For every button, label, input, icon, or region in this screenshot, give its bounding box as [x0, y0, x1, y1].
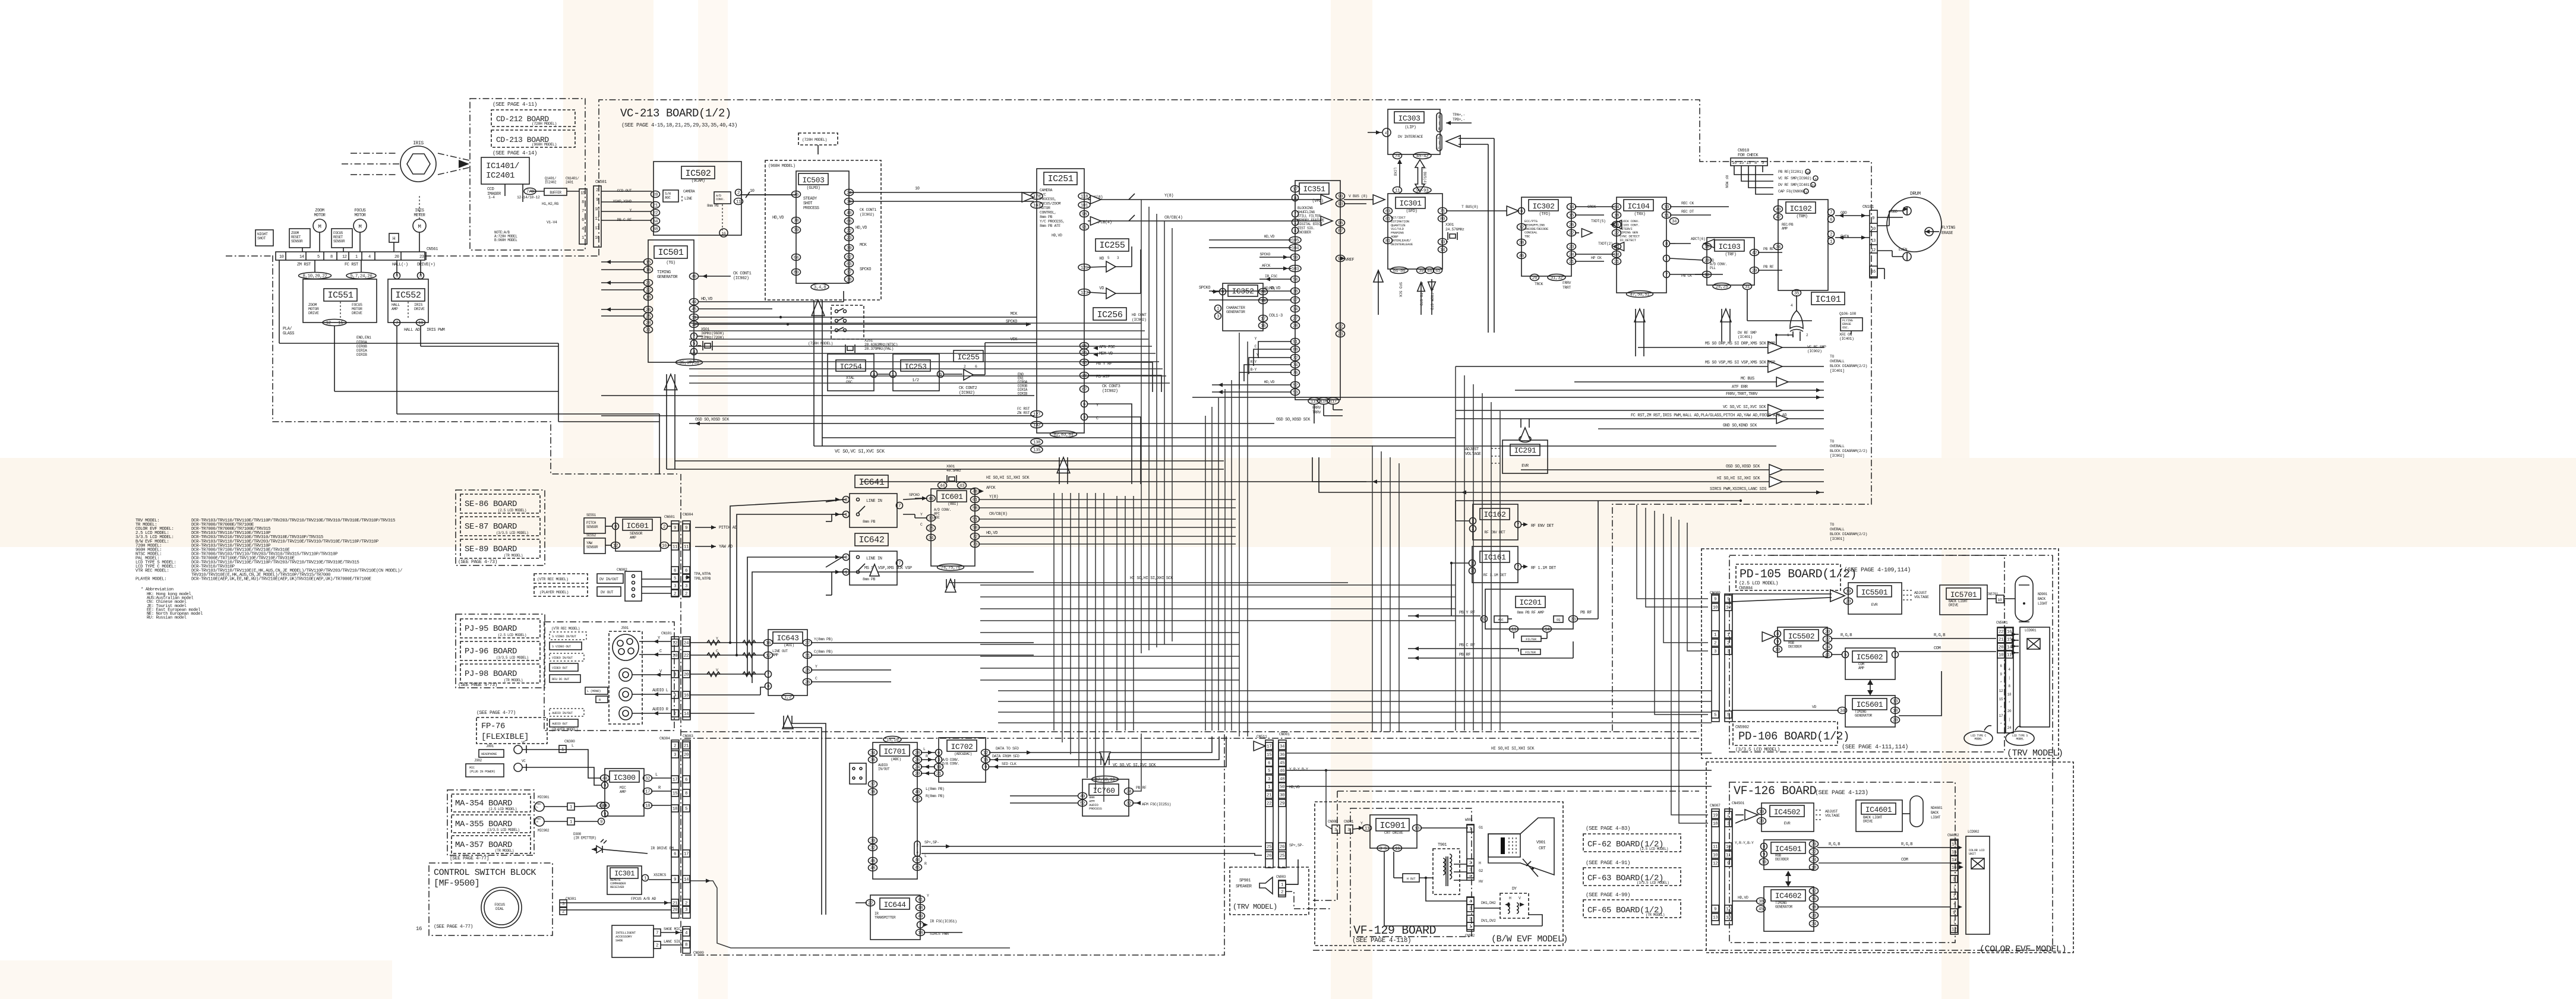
svg-text:(PLUG IN POWER): (PLUG IN POWER): [469, 770, 495, 774]
svg-text:SE-87 BOARD: SE-87 BOARD: [465, 522, 517, 532]
svg-text:R,G,B: R,G,B: [1841, 633, 1852, 638]
svg-text:7: 7: [919, 924, 921, 928]
svg-text:26: 26: [1569, 223, 1574, 228]
svg-text:FRRV: FRRV: [1562, 281, 1571, 285]
svg-text:PLAYER MODEL:: PLAYER MODEL:: [135, 577, 166, 582]
720H model box top: [798, 133, 838, 145]
svg-text:27: 27: [1293, 317, 1298, 322]
night shot box: [255, 230, 273, 246]
svg-text:MOTOR: MOTOR: [354, 213, 366, 218]
svg-text:87: 87: [1338, 229, 1343, 234]
svg-text:SHOE MIC L: SHOE MIC L: [664, 927, 685, 931]
wire mesh vertical bundle B: [1053, 493, 1055, 731]
svg-text:UNIT: UNIT: [1969, 852, 1977, 856]
svg-text:*: *: [1953, 903, 1955, 907]
svg-text:DRIVE: DRIVE: [1949, 603, 1959, 608]
svg-text:IC251: IC251: [1047, 174, 1073, 184]
svg-text:(TR MODEL): (TR MODEL): [504, 554, 523, 558]
svg-text:OVERALL: OVERALL: [1830, 359, 1845, 363]
svg-text:[IC401]: [IC401]: [1830, 369, 1845, 373]
svg-text:AFN FSC: AFN FSC: [1099, 345, 1115, 350]
svg-text:Y: Y: [716, 637, 718, 641]
svg-text:CAMERA: CAMERA: [683, 189, 695, 194]
svg-text:V901: V901: [1536, 840, 1545, 845]
svg-text:8: 8: [1776, 633, 1779, 637]
svg-text:IC2402: IC2402: [545, 181, 557, 185]
svg-text:V: V: [716, 668, 718, 672]
svg-text:20: 20: [915, 772, 920, 777]
svg-text:29: 29: [1752, 269, 1757, 274]
svg-text:IC301: IC301: [1399, 199, 1422, 208]
svg-text:REC DT: REC DT: [1681, 210, 1694, 214]
wire mesh horizontals lower2: [998, 690, 1712, 691]
svg-text:CN904: CN904: [683, 513, 693, 517]
svg-text:[IC902]: [IC902]: [1830, 454, 1845, 458]
svg-text:L BUS(4): L BUS(4): [1423, 167, 1427, 185]
svg-text:IC503: IC503: [802, 176, 824, 185]
svg-text:*: *: [2000, 722, 2002, 726]
svg-text:C: C: [920, 523, 923, 527]
svg-text:(IC401): (IC401): [1839, 337, 1854, 341]
IC301: [1388, 194, 1442, 269]
zoom motor: [313, 219, 326, 232]
svg-text:13: 13: [1704, 273, 1710, 278]
svg-text:24: 24: [1811, 858, 1817, 863]
IC301 remote receiver: [607, 866, 642, 894]
svg-text:SPCKO: SPCKO: [1199, 286, 1210, 290]
svg-text:PD-106 BOARD(1/2): PD-106 BOARD(1/2): [1738, 730, 1849, 743]
svg-text:12: 12: [1811, 890, 1816, 894]
svg-text:FC RST: FC RST: [345, 263, 358, 267]
svg-text:7: 7: [1517, 565, 1519, 570]
svg-text:2: 2: [685, 592, 687, 597]
svg-text:11: 11: [1713, 845, 1718, 850]
svg-text:17: 17: [1293, 188, 1298, 192]
svg-text:28: 28: [1293, 324, 1298, 329]
svg-text:TXDT(2): TXDT(2): [1598, 242, 1613, 246]
svg-text:(TFD): (TFD): [1539, 212, 1550, 217]
svg-text:OVERALL: OVERALL: [1830, 444, 1845, 448]
svg-text:21: 21: [1569, 260, 1574, 265]
iris lens symbol: [400, 146, 436, 182]
svg-text:ADJUST: ADJUST: [1825, 810, 1838, 814]
svg-text:R,G,B: R,G,B: [1829, 842, 1840, 847]
svg-text:|: |: [1438, 121, 1439, 125]
svg-text:TRCK: TRCK: [1535, 282, 1543, 286]
svg-text:Y(8): Y(8): [989, 495, 998, 499]
svg-text:22: 22: [1811, 851, 1816, 855]
svg-text:HD,VD: HD,VD: [1738, 896, 1748, 900]
crystal X501: [705, 343, 711, 348]
svg-text:VREF: VREF: [1345, 258, 1354, 263]
svg-text:11: 11: [1395, 189, 1400, 194]
svg-text:23: 23: [419, 255, 424, 260]
svg-text:IRIS: IRIS: [413, 141, 424, 146]
svg-text:51: 51: [973, 518, 978, 523]
svg-text:IC4501: IC4501: [1775, 845, 1802, 853]
svg-text:8: 8: [674, 673, 676, 678]
extended IC601 outputs: [978, 499, 1236, 500]
bus dots: [779, 316, 782, 318]
svg-text:S VIDEO OUT: S VIDEO OUT: [552, 644, 572, 649]
svg-text:7: 7: [656, 931, 658, 936]
svg-text:ENCODER: ENCODER: [1298, 230, 1311, 235]
svg-text:HP CK: HP CK: [1591, 256, 1602, 260]
svg-text:IC5602: IC5602: [1857, 653, 1883, 662]
svg-text:STEADY: STEADY: [803, 197, 817, 201]
svg-text:IC351: IC351: [1303, 185, 1325, 194]
scan tint vertical band 4: [1942, 0, 1969, 999]
svg-text:26: 26: [1532, 276, 1538, 281]
svg-text:RU: Russian model: RU: Russian model: [147, 616, 187, 621]
svg-text:34: 34: [870, 751, 876, 756]
IC643: [768, 630, 807, 695]
svg-text:(IR EMITTER): (IR EMITTER): [573, 836, 596, 840]
wire mesh vertical bundle A: [1141, 200, 1142, 653]
svg-text:46: 46: [929, 497, 934, 502]
svg-text:PLL: PLL: [1710, 266, 1716, 270]
wire mesh vertical bundle D: [1455, 366, 1456, 731]
CCD connector strips: [579, 189, 587, 244]
svg-text:IC4602: IC4602: [1775, 891, 1801, 900]
svg-text:2: 2: [674, 712, 676, 717]
svg-text:MS SO DRP,MS SI DRP,XMS SCK DR: MS SO DRP,MS SI DRP,XMS SCK DRP: [1705, 342, 1775, 346]
svg-text:Y,R-Y,B-Y: Y,R-Y,B-Y: [1735, 841, 1754, 845]
svg-text:TBC: TBC: [1524, 235, 1530, 239]
svg-text:LCD902: LCD902: [1968, 830, 1980, 834]
IC551: [303, 279, 377, 323]
svg-text:26: 26: [1267, 854, 1272, 859]
svg-text:14: 14: [1440, 248, 1445, 253]
svg-text:(SEE PAGE 4-109,114): (SEE PAGE 4-109,114): [1844, 567, 1911, 574]
svg-text:12: 12: [613, 544, 618, 549]
svg-text:TO: TO: [1830, 440, 1835, 444]
svg-text:12: 12: [673, 641, 677, 646]
svg-text:SE552: SE552: [586, 533, 596, 538]
svg-text:11: 11: [1365, 827, 1370, 832]
svg-text:10: 10: [750, 189, 755, 194]
wire mesh vertical bundle B2: [1116, 496, 1117, 731]
svg-text:25: 25: [1280, 854, 1285, 859]
svg-text:22: 22: [653, 211, 658, 216]
svg-text:(SEE PAGE 4-83): (SEE PAGE 4-83): [1586, 826, 1630, 832]
svg-text:22: 22: [868, 902, 873, 906]
svg-text:ERASE: ERASE: [1942, 231, 1953, 236]
svg-text:DIROB: DIROB: [356, 344, 367, 349]
svg-text:XSIRCS: XSIRCS: [654, 873, 667, 877]
svg-text:TRRV: TRRV: [1312, 410, 1321, 415]
svg-text:27: 27: [805, 641, 810, 646]
svg-text:CN4501: CN4501: [1732, 801, 1745, 805]
svg-text:28: 28: [646, 321, 651, 326]
scan tint bottom band: [0, 960, 392, 999]
svg-text:J801: J801: [486, 744, 494, 748]
TRV model speaker dashed box: [1230, 867, 1309, 915]
svg-text:IC5501: IC5501: [1861, 588, 1888, 597]
svg-text:28: 28: [915, 751, 920, 756]
svg-text:IC702: IC702: [951, 742, 973, 751]
svg-text:14: 14: [299, 255, 304, 260]
svg-text:TRANSMITTER: TRANSMITTER: [875, 916, 896, 920]
svg-text:16: 16: [646, 268, 651, 273]
svg-text:X301: X301: [1445, 223, 1454, 227]
svg-text:8,10,20,22: 8,10,20,22: [302, 274, 327, 279]
svg-text:(IC401): (IC401): [1738, 335, 1753, 339]
svg-text:L(8mm PB): L(8mm PB): [926, 787, 945, 791]
svg-text:13: 13: [1440, 241, 1445, 245]
control switch block: [429, 863, 553, 935]
svg-text:HI SO,HI SI,XHI SCK: HI SO,HI SI,XHI SCK: [1130, 576, 1173, 581]
svg-text:16: 16: [1952, 866, 1957, 871]
svg-text:C: C: [659, 649, 662, 654]
svg-text:PJ-98 BOARD: PJ-98 BOARD: [465, 669, 517, 679]
svg-text:10: 10: [1999, 653, 2004, 658]
IC251: [1037, 169, 1084, 433]
svg-text:(2.5 LCD MODEL): (2.5 LCD MODEL): [498, 633, 526, 637]
svg-text:IC253: IC253: [904, 362, 926, 371]
svg-text:IC255: IC255: [1099, 241, 1125, 251]
svg-text:71: 71: [1440, 210, 1445, 214]
svg-text:45: 45: [1759, 908, 1764, 912]
svg-text:CN561: CN561: [427, 247, 438, 252]
svg-text:IC1401/: IC1401/: [486, 162, 519, 171]
svg-text:Y: Y: [1254, 337, 1257, 341]
svg-text:14: 14: [2007, 646, 2012, 650]
svg-text:ZOOM: ZOOM: [291, 231, 299, 235]
svg-text:IC4601: IC4601: [1865, 805, 1892, 814]
svg-text:93: 93: [1338, 203, 1343, 207]
svg-text:37: 37: [847, 271, 851, 276]
svg-text:CN4602: CN4602: [1947, 833, 1959, 837]
svg-text:TXDT(5): TXDT(5): [1591, 219, 1606, 223]
svg-text:(ABC): (ABC): [891, 757, 901, 761]
svg-text:MOTOR: MOTOR: [352, 307, 362, 311]
svg-text:14: 14: [684, 712, 689, 717]
svg-text:OVERALL: OVERALL: [1830, 527, 1845, 532]
svg-text:G1: G1: [1479, 826, 1483, 830]
IC5501: [1848, 583, 1902, 614]
svg-text:(8BI): (8BI): [948, 502, 958, 506]
svg-text:OSC.: OSC.: [1842, 325, 1849, 330]
svg-text:CR/CB(4): CR/CB(4): [1164, 216, 1183, 220]
svg-text:M: M: [318, 224, 321, 230]
svg-text:Y: Y: [927, 894, 929, 898]
svg-text:44: 44: [1427, 269, 1432, 274]
svg-text:CN301: CN301: [566, 897, 576, 901]
svg-text:20: 20: [684, 673, 689, 678]
svg-text:24: 24: [1569, 253, 1574, 258]
svg-text:63: 63: [1385, 210, 1391, 214]
svg-text:96: 96: [1338, 222, 1343, 226]
svg-text:9: 9: [1727, 597, 1729, 602]
svg-text:38: 38: [847, 278, 851, 283]
svg-text:62: 62: [847, 255, 851, 260]
svg-text:HD,VD: HD,VD: [1264, 380, 1274, 384]
svg-text:15,16: 15,16: [886, 738, 899, 743]
IC641: [855, 475, 888, 488]
svg-text:16: 16: [2007, 630, 2012, 635]
svg-text:CN001: CN001: [1279, 732, 1290, 736]
svg-text:VD: VD: [1099, 286, 1104, 291]
svg-text:DATA TO SFD: DATA TO SFD: [996, 747, 1019, 751]
svg-text:CN304: CN304: [659, 736, 670, 741]
wire mesh horizontals mid: [601, 395, 1034, 396]
svg-text:(LIP): (LIP): [1404, 125, 1416, 130]
svg-text:AGC: AGC: [1498, 618, 1504, 622]
svg-text:36: 36: [870, 758, 876, 763]
svg-text:26: 26: [805, 681, 810, 685]
svg-text:COL1-3: COL1-3: [1269, 314, 1283, 318]
svg-text:T BUS(8): T BUS(8): [1461, 205, 1478, 209]
svg-text:40: 40: [847, 211, 852, 216]
IC251 left wires: [849, 201, 1034, 202]
svg-text:FP-76: FP-76: [481, 722, 505, 731]
IC351: [1295, 181, 1340, 400]
VC-213 board outline top: [599, 100, 1871, 732]
svg-text:VF-126 BOARD: VF-126 BOARD: [1734, 785, 1816, 798]
svg-text:|: |: [2008, 717, 2010, 722]
svg-text:FRRV,TRRT,TRRV: FRRV,TRRT,TRRV: [1726, 392, 1758, 397]
svg-text:84-86: 84-86: [1393, 269, 1406, 274]
svg-text:9: 9: [1953, 911, 1955, 916]
svg-text:4: 4: [1815, 178, 1817, 181]
svg-text:32: 32: [1126, 802, 1131, 807]
svg-text:8: 8: [767, 685, 769, 690]
svg-text:Y/C PROCESS,: Y/C PROCESS,: [1040, 220, 1065, 224]
IC4601: [1856, 800, 1902, 832]
bus ATF ERR: [1515, 390, 1824, 391]
VF-129 board dashed box: [1315, 802, 1563, 946]
wires to CN511: [1286, 770, 1712, 771]
svg-text:97: 97: [1293, 299, 1298, 304]
svg-text:MODEL: MODEL: [1974, 738, 1982, 741]
svg-text:25: 25: [1267, 845, 1272, 850]
svg-text:EVR: EVR: [1521, 464, 1529, 469]
svg-text:PROCESS: PROCESS: [1089, 807, 1102, 811]
VF-129 inner dashed box: [1350, 808, 1472, 937]
svg-text:49: 49: [918, 915, 923, 919]
svg-text:26: 26: [1280, 845, 1285, 850]
svg-text:44: 44: [940, 484, 945, 489]
svg-text:8: 8: [1763, 845, 1765, 850]
svg-text:24,25: 24,25: [1716, 285, 1728, 290]
svg-text:12: 12: [1713, 862, 1718, 867]
svg-text:16: 16: [1811, 897, 1817, 902]
svg-text:38: 38: [1759, 900, 1763, 905]
HI bus near CN001: [1286, 753, 1712, 754]
svg-text:20: 20: [1825, 630, 1830, 635]
svg-text:138: 138: [1033, 441, 1040, 445]
svg-text:45: 45: [692, 308, 697, 312]
svg-text:OSD SO,XOSD SCK: OSD SO,XOSD SCK: [1726, 464, 1760, 469]
wire mesh horizontals lower: [980, 584, 1456, 586]
svg-text:R: R: [926, 754, 928, 758]
svg-text:(IC902): (IC902): [1102, 389, 1118, 394]
AV jack block: [544, 622, 674, 731]
svg-text:8: 8: [1665, 242, 1668, 247]
svg-text:7: 7: [898, 504, 901, 509]
bus MC BUS: [1574, 381, 1824, 382]
svg-text:16: 16: [595, 236, 599, 241]
SPCKO bus: [694, 324, 1031, 325]
svg-text:126: 126: [1081, 266, 1088, 271]
svg-text:(720H MODEL): (720H MODEL): [532, 122, 557, 126]
svg-text:B:960H MODEL: B:960H MODEL: [494, 238, 517, 242]
svg-text:ATF ERR: ATF ERR: [1732, 385, 1748, 390]
svg-text:Y(8): Y(8): [1164, 194, 1173, 198]
svg-text:53: 53: [1811, 184, 1815, 188]
svg-text:72: 72: [973, 535, 977, 540]
svg-text:MODEL: MODEL: [2016, 738, 2023, 741]
svg-text:PITCH: PITCH: [586, 521, 596, 525]
svg-text:42: 42: [1776, 216, 1781, 220]
lens block wires: [314, 260, 315, 272]
svg-text:20: 20: [1846, 600, 1851, 605]
svg-text:8: 8: [582, 200, 584, 205]
svg-text:IC601: IC601: [626, 521, 649, 530]
svg-text:V: V: [1519, 896, 1521, 900]
IC352: [1223, 283, 1263, 331]
HD VD wires: [699, 301, 844, 302]
svg-text:13: 13: [1893, 700, 1898, 704]
svg-text:DY: DY: [1512, 887, 1517, 891]
svg-text:8mm PB: 8mm PB: [863, 520, 876, 524]
svg-text:24: 24: [915, 766, 920, 770]
IC254: [828, 354, 874, 391]
IC503 top bus wire: [849, 192, 1037, 193]
svg-text:IC102: IC102: [1789, 204, 1811, 213]
svg-text:PB C RF: PB C RF: [1459, 643, 1475, 648]
svg-text:CN003: CN003: [1276, 875, 1286, 879]
svg-text:[IC801]: [IC801]: [1830, 537, 1845, 541]
svg-text:9: 9: [1714, 908, 1716, 912]
svg-text:7: 7: [396, 321, 398, 326]
svg-text:4: 4: [368, 255, 371, 260]
svg-text:88: 88: [1293, 348, 1298, 353]
svg-text:2: 2: [1727, 814, 1729, 818]
svg-text:15: 15: [983, 758, 989, 763]
IC5701: [1940, 585, 1987, 615]
svg-text:CR/CB(8): CR/CB(8): [989, 512, 1008, 517]
svg-text:7: 7: [1830, 211, 1832, 216]
svg-text:13: 13: [1746, 161, 1751, 166]
svg-text:CN007: CN007: [1710, 804, 1721, 808]
svg-text:123: 123: [1081, 291, 1088, 296]
svg-text:17: 17: [1999, 714, 2003, 718]
svg-text:HD,VD: HD,VD: [1264, 235, 1274, 239]
svg-text:END,EN1: END,EN1: [356, 336, 371, 340]
svg-text:13: 13: [595, 226, 599, 231]
svg-text:(IC902): (IC902): [860, 213, 875, 217]
svg-text:135: 135: [1033, 448, 1041, 453]
svg-text:MCK: MCK: [860, 243, 867, 248]
EVF section outline: [1770, 555, 2053, 556]
svg-text:PJ-95 BOARD: PJ-95 BOARD: [465, 624, 517, 634]
svg-text:IC701: IC701: [883, 747, 906, 756]
svg-text:101: 101: [1081, 204, 1088, 208]
svg-text:(TR MODEL): (TR MODEL): [1646, 913, 1665, 917]
IC552: [388, 279, 428, 323]
svg-text:17: 17: [1261, 317, 1265, 322]
bus arrows into IC251 bottom: [1057, 457, 1070, 473]
svg-text:M: M: [418, 224, 421, 230]
svg-text:20: 20: [1759, 820, 1764, 824]
svg-text:R: R: [924, 862, 927, 866]
svg-text:38: 38: [1293, 290, 1298, 295]
svg-text:SHOT: SHOT: [257, 236, 266, 241]
svg-text:16: 16: [416, 926, 422, 932]
svg-text:DECODER: DECODER: [1775, 858, 1789, 862]
